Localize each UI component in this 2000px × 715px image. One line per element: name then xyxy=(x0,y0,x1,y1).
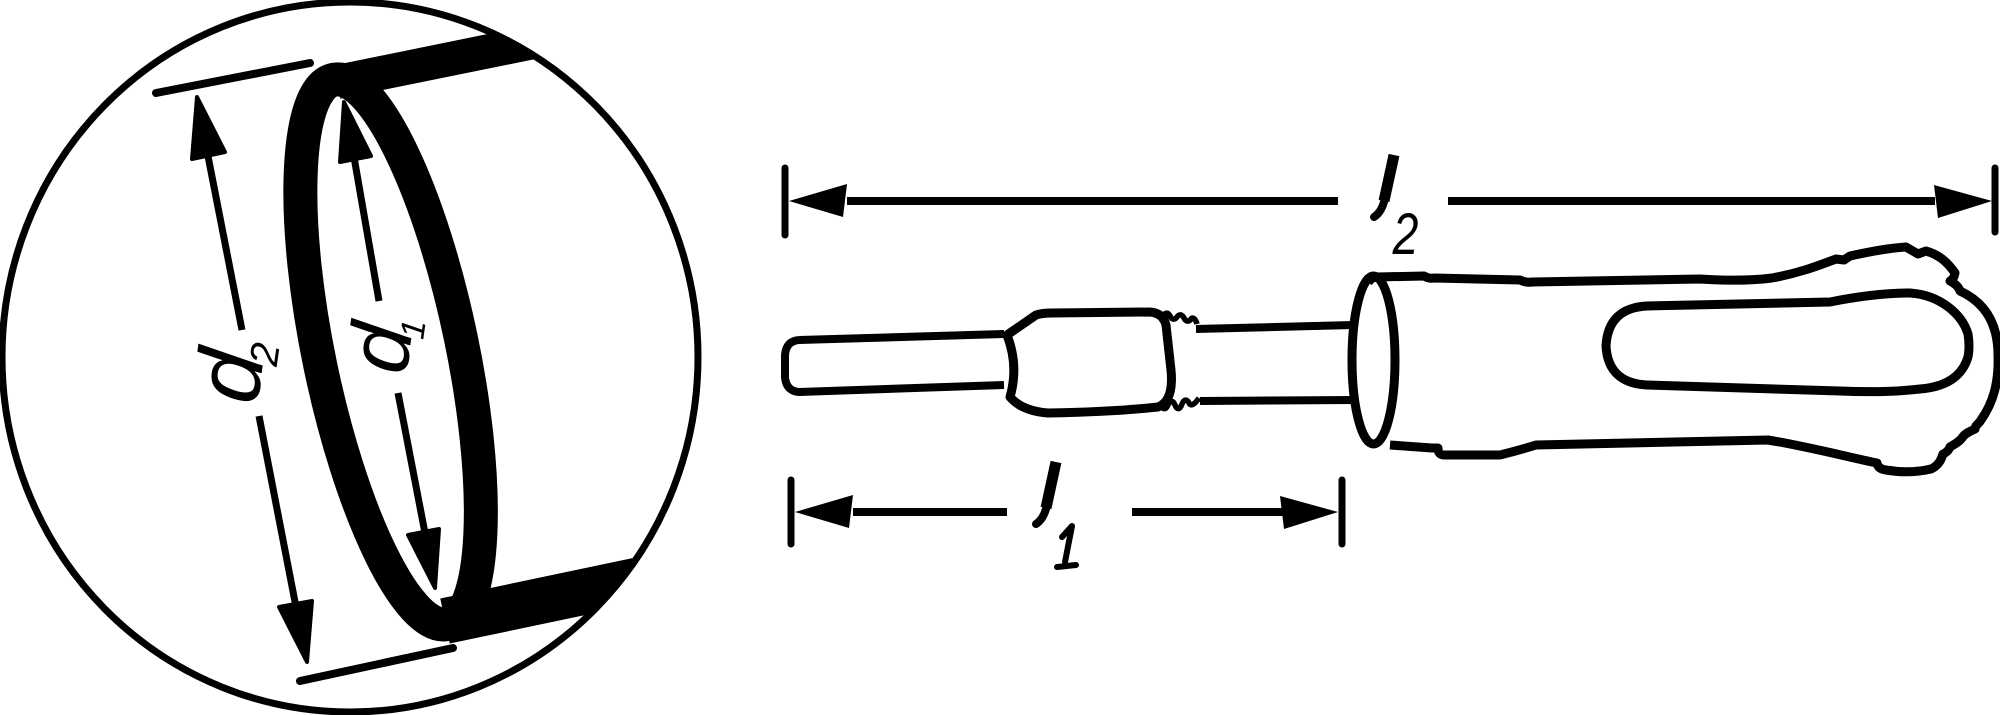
middle shaft top edge xyxy=(1196,325,1353,329)
ferrule (bulge) xyxy=(1007,312,1171,413)
l1 label xyxy=(1046,462,1056,508)
l1 dimension: left tick xyxy=(788,480,795,544)
l2 dimension line right part xyxy=(1448,197,1935,205)
l1 dimension line right part xyxy=(1132,508,1283,516)
l1 right tick xyxy=(1339,480,1346,544)
l1 dimension line left part xyxy=(853,508,1007,516)
l2 right tick xyxy=(1992,168,1999,232)
l2 arrowhead left xyxy=(789,184,847,217)
l2 dimension: left tick xyxy=(782,168,789,235)
l1 arrowhead left xyxy=(795,495,853,528)
d1 dimension line xyxy=(354,157,425,533)
d2 dimension line xyxy=(207,151,296,607)
ferrule right crimp top xyxy=(1162,313,1197,324)
svg-text:d1: d1 xyxy=(330,309,434,379)
tool tip shaft xyxy=(785,334,1004,392)
ferrule right crimp bottom xyxy=(1160,398,1199,409)
l2 label xyxy=(1384,155,1394,201)
detail circle xyxy=(2,2,698,712)
handle front ellipse xyxy=(1352,276,1395,444)
handle hanging-hole cutout xyxy=(1606,293,1969,392)
l1 arrowhead right xyxy=(1280,496,1338,529)
l2 arrowhead right xyxy=(1934,185,1992,218)
middle shaft bottom edge xyxy=(1200,400,1356,401)
d1 arrowhead top xyxy=(340,102,371,162)
d2 arrowhead top xyxy=(192,97,225,159)
socket body bottom edge xyxy=(445,578,650,621)
d1 arrowhead bottom xyxy=(408,529,439,588)
socket body top edge xyxy=(337,33,578,82)
d2 arrowhead bottom xyxy=(279,601,312,662)
d2 extension line bottom xyxy=(300,648,453,681)
d2 extension line top xyxy=(156,63,310,93)
handle outline xyxy=(1368,247,1998,472)
svg-text:d2: d2 xyxy=(176,332,289,409)
svg-text:2: 2 xyxy=(1392,202,1419,267)
l2 dimension line left part xyxy=(847,197,1338,205)
socket rim ellipse xyxy=(264,65,518,639)
